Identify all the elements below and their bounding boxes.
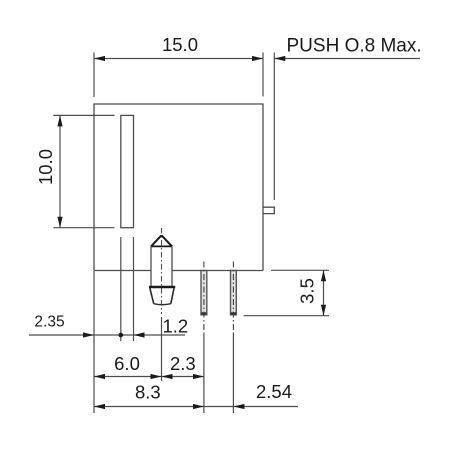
- dimension 10.0 arrow bottom: [57, 217, 62, 228]
- dimension 3.5 arrow bottom: [321, 305, 326, 316]
- pin 1 centerline: [203, 262, 205, 335]
- dimension 2.35 and 1.2 line: [29, 334, 185, 336]
- dimension 1.2 dot: [119, 333, 124, 338]
- svg-text:10.0: 10.0: [35, 149, 56, 185]
- svg-text:2.3: 2.3: [170, 353, 196, 374]
- dimension 15.0 extension line right: [262, 53, 264, 97]
- svg-text:PUSH O.8 Max.: PUSH O.8 Max.: [287, 36, 422, 57]
- dimension 3.5 extension line top: [271, 269, 329, 271]
- dimension 3.5 line: [323, 270, 325, 315]
- dimension 3.5 extension line bottom: [244, 315, 329, 317]
- dimension 15.0 arrow left: [94, 56, 105, 61]
- dimension 8.3 and 2.54 line: [94, 406, 298, 408]
- slot: [121, 115, 134, 227]
- dimension 10.0 extension line top: [53, 114, 114, 116]
- svg-text:2.35: 2.35: [34, 314, 64, 331]
- dimension 2.3 arrow right: [193, 374, 204, 379]
- svg-text:2.54: 2.54: [256, 381, 292, 402]
- dimension 10.0 line: [59, 115, 61, 227]
- dimension 6.0 arrow left: [94, 374, 105, 379]
- peg bottom arc: [154, 304, 171, 305]
- dimension 10.0 arrow top: [57, 115, 62, 126]
- peg taper: [150, 288, 174, 304]
- peg cylinder sides: [151, 246, 172, 286]
- dimension 6.0 and 2.3 line: [94, 376, 204, 378]
- push leader arrow: [274, 56, 285, 61]
- peg collar top line: [149, 286, 175, 289]
- push travel extension line: [273, 53, 275, 201]
- body left extension line: [93, 271, 95, 413]
- dimension 8.3 arrow right: [193, 404, 204, 409]
- svg-text:1.2: 1.2: [162, 316, 188, 337]
- dimension 15.0 line: [94, 58, 263, 60]
- dimension 2.54 arrow: [233, 404, 244, 409]
- peg centerline: [161, 228, 163, 314]
- dimension 1.2 arrow: [134, 332, 145, 337]
- slot right extension line: [133, 237, 135, 341]
- push leader line: [274, 58, 420, 60]
- peg center extension line: [161, 317, 163, 381]
- svg-text:6.0: 6.0: [114, 353, 140, 374]
- pin 2 center extension line: [232, 334, 234, 413]
- peg tip triangle: [151, 235, 172, 246]
- dimension 2.3 arrow left: [162, 374, 173, 379]
- svg-text:15.0: 15.0: [162, 34, 198, 55]
- pin 1 center extension line: [203, 334, 205, 413]
- dimension 3.5 arrow top: [321, 270, 326, 281]
- dimension 15.0 arrow right: [252, 56, 263, 61]
- peg shoulder line: [151, 245, 172, 247]
- pin 2 body: [231, 271, 237, 315]
- dimension 8.3 arrow left: [94, 404, 105, 409]
- dimension 10.0 extension line bottom: [53, 227, 114, 229]
- push button: [263, 207, 274, 213]
- dimension 6.0 arrow right: [151, 374, 162, 379]
- svg-text:8.3: 8.3: [135, 381, 161, 402]
- dimension 2.35 arrow: [83, 332, 94, 337]
- body outline: [94, 104, 263, 271]
- pin 1 body: [201, 271, 207, 315]
- dimension 15.0 extension line left: [93, 53, 95, 98]
- pin 2 centerline: [232, 262, 234, 335]
- svg-text:3.5: 3.5: [297, 278, 318, 304]
- slot left extension line: [120, 237, 122, 341]
